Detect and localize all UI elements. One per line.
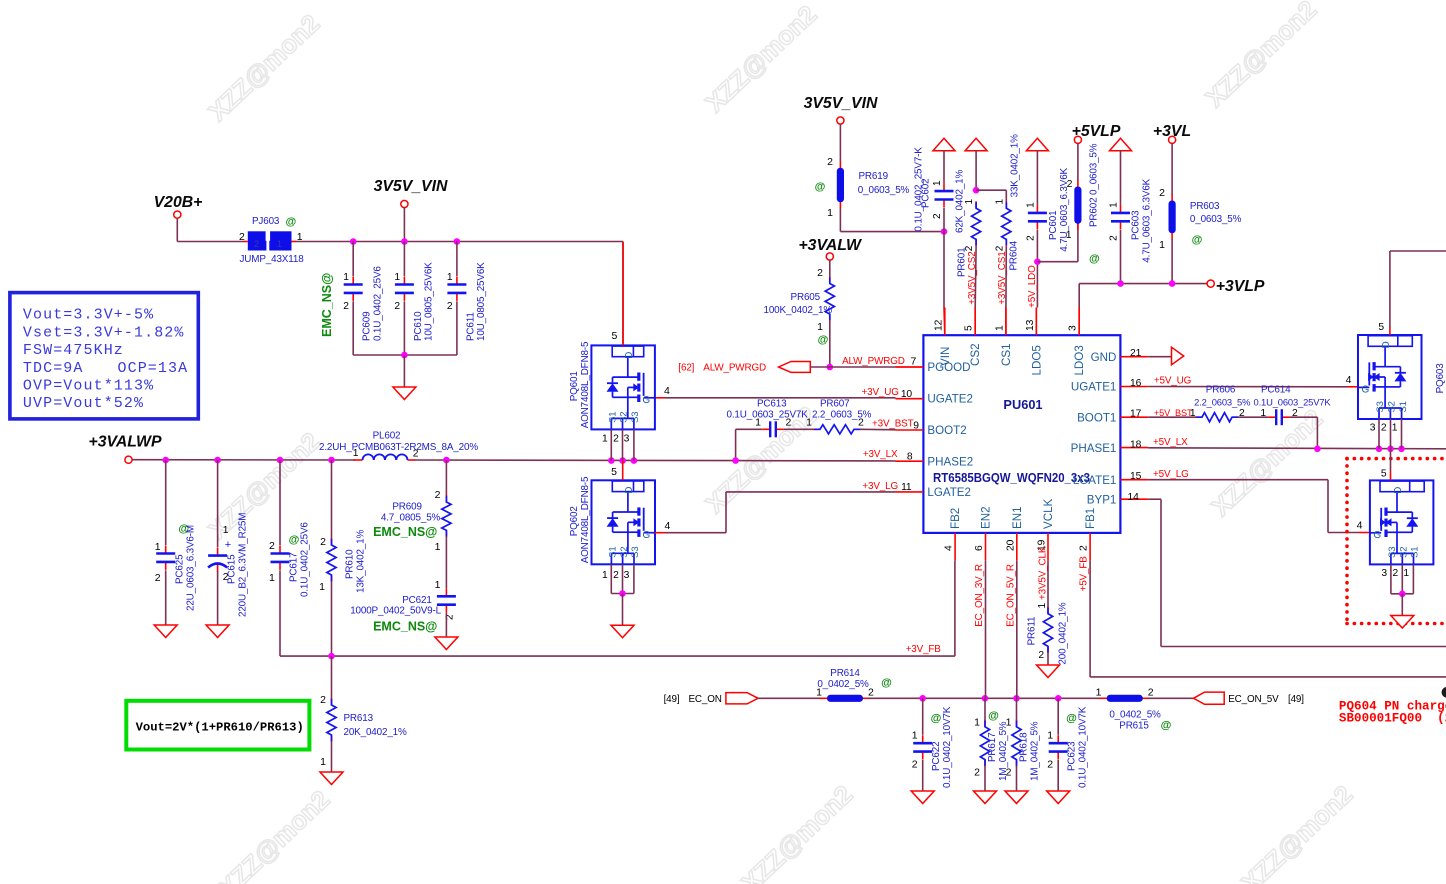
- svg-text:+5V_UG: +5V_UG: [1154, 376, 1191, 387]
- PQ602 pin4 label: [665, 520, 671, 532]
- svg-text:2: 2: [932, 213, 943, 219]
- wire PR619 to VIN: [840, 208, 947, 235]
- svg-text:PC621: PC621: [402, 595, 432, 606]
- svg-text:1: 1: [974, 717, 980, 729]
- net +5VLP terminal: [1072, 123, 1121, 143]
- svg-text:200_0402_1%: 200_0402_1%: [1058, 602, 1069, 664]
- wire +3VALWP rail: [132, 457, 895, 464]
- svg-text:EC_ON_5V_R: EC_ON_5V_R: [1006, 564, 1017, 627]
- wire PQ603 sources: [1370, 419, 1402, 449]
- svg-text:2: 2: [1381, 423, 1387, 434]
- svg-text:S2: S2: [619, 546, 630, 557]
- wire PQ601 pin5: [611, 242, 623, 346]
- svg-text:EMC_NS@: EMC_NS@: [373, 525, 437, 539]
- svg-text:PC610: PC610: [413, 311, 424, 341]
- svg-text:S1: S1: [608, 412, 619, 423]
- net label +3V_LG: [862, 481, 898, 492]
- ground PC621: [435, 637, 458, 650]
- svg-text:17: 17: [1130, 409, 1142, 420]
- PQ603 pin4 label: [1346, 374, 1352, 386]
- net +3V5V_CS1: [997, 251, 1008, 305]
- net +5V_LDO: [1027, 265, 1038, 308]
- svg-text:G: G: [642, 395, 650, 406]
- svg-text:PQ603: PQ603: [1435, 363, 1446, 394]
- ground PQ604: [1391, 616, 1414, 629]
- resistor PR610: [319, 460, 366, 656]
- svg-text:1: 1: [932, 180, 943, 186]
- svg-text:0.1U_0402_25V6: 0.1U_0402_25V6: [300, 522, 311, 597]
- net label +5V_BST: [1154, 408, 1193, 418]
- svg-text:FSW=475KHz: FSW=475KHz: [23, 342, 124, 359]
- svg-text:22U_0603_6.3V6-M: 22U_0603_6.3V6-M: [186, 525, 197, 611]
- svg-text:1: 1: [1066, 229, 1072, 241]
- watermark: [204, 0, 1359, 884]
- wire PR604 to CS1: [1005, 246, 1007, 335]
- ground PC622: [911, 791, 934, 804]
- ground cap bank: [393, 387, 416, 400]
- svg-text:1: 1: [320, 756, 326, 768]
- svg-text:PHASE1: PHASE1: [1071, 442, 1117, 455]
- svg-text:@: @: [1161, 720, 1172, 732]
- wire VIN pin stub: [943, 308, 946, 336]
- wire EC_ON to PR614: [758, 697, 822, 699]
- capacitor PC613: [727, 398, 809, 437]
- wire PQ604 pin5: [1381, 449, 1391, 481]
- net EC_ON_5V_R: [1006, 564, 1017, 627]
- svg-text:1: 1: [1047, 730, 1053, 742]
- svg-text:PC615: PC615: [227, 554, 238, 584]
- svg-text:5: 5: [964, 325, 975, 331]
- svg-text:EMC_NS@: EMC_NS@: [320, 273, 334, 337]
- svg-text:UVP=Vout*52%: UVP=Vout*52%: [23, 395, 144, 412]
- svg-text:PC609: PC609: [362, 311, 373, 341]
- svg-text:OCP=13A: OCP=13A: [118, 360, 189, 377]
- capacitor PC615: [208, 460, 248, 625]
- wire LDO5 to PR602: [1037, 208, 1078, 262]
- net label +3V_FB: [906, 644, 942, 655]
- svg-text:LGATE1: LGATE1: [1073, 474, 1117, 487]
- svg-text:0_0402_5%: 0_0402_5%: [1109, 710, 1161, 721]
- capacitor PC610: [394, 242, 434, 356]
- svg-text:4: 4: [665, 520, 671, 532]
- svg-text:+5V_LDO: +5V_LDO: [1027, 265, 1038, 308]
- svg-text:PC623: PC623: [1067, 741, 1078, 771]
- svg-text:2: 2: [394, 301, 400, 312]
- svg-text:+3VLP: +3VLP: [1216, 278, 1265, 295]
- svg-text:PU601: PU601: [1003, 397, 1042, 412]
- svg-text:4: 4: [1357, 520, 1363, 532]
- svg-text:2: 2: [868, 687, 874, 699]
- resistor PR607: [806, 398, 872, 434]
- wire EC_ON mid rail: [868, 695, 1101, 702]
- IC PU601 RT6585BGQW_WQFN20_3x3: [923, 335, 1120, 533]
- svg-text:G: G: [643, 530, 651, 541]
- svg-text:1: 1: [269, 572, 275, 584]
- svg-text:13K_0402_1%: 13K_0402_1%: [356, 529, 367, 593]
- net +3VALW terminal: [798, 237, 863, 260]
- svg-text:[49]: [49]: [1288, 694, 1304, 705]
- svg-text:PR613: PR613: [344, 713, 374, 724]
- svg-text:EN2: EN2: [980, 506, 993, 529]
- svg-text:1: 1: [1037, 603, 1048, 609]
- svg-text:S2: S2: [1399, 547, 1410, 558]
- svg-text:2: 2: [858, 417, 864, 429]
- inductor PL602: [319, 431, 478, 461]
- svg-text:1: 1: [1190, 408, 1196, 419]
- svg-text:Vout=2V*(1+PR610/PR613): Vout=2V*(1+PR610/PR613): [136, 721, 304, 735]
- svg-text:PR605: PR605: [791, 292, 821, 303]
- svg-text:2: 2: [974, 767, 980, 779]
- svg-text:1: 1: [1392, 423, 1398, 434]
- svg-text:+3VALWP: +3VALWP: [88, 434, 161, 451]
- svg-text:@: @: [1066, 713, 1077, 725]
- svg-text:PR602 0_0603_5%: PR602 0_0603_5%: [1088, 143, 1099, 227]
- svg-text:PC602: PC602: [921, 179, 932, 208]
- svg-text:2: 2: [1047, 759, 1053, 771]
- svg-text:(2: (2: [1437, 712, 1446, 726]
- svg-text:2: 2: [817, 267, 823, 279]
- ground PR618: [1005, 791, 1028, 804]
- svg-text:RT6585BGQW_WQFN20_3x3: RT6585BGQW_WQFN20_3x3: [933, 470, 1090, 485]
- svg-text:2: 2: [994, 245, 1005, 251]
- svg-text:S3: S3: [630, 412, 641, 423]
- svg-text:2: 2: [613, 570, 619, 581]
- svg-text:+5V_LX: +5V_LX: [1153, 437, 1188, 448]
- svg-text:@: @: [289, 534, 300, 546]
- edge dot: [1442, 687, 1446, 698]
- svg-text:3: 3: [624, 570, 630, 581]
- net V20B+ terminal: [154, 194, 203, 218]
- svg-text:+: +: [225, 539, 231, 551]
- svg-text:1: 1: [827, 207, 833, 219]
- wire PR615 to connector: [1148, 697, 1194, 699]
- svg-text:D: D: [624, 352, 635, 359]
- svg-text:11: 11: [901, 482, 912, 493]
- svg-text:CS1: CS1: [1000, 343, 1013, 366]
- wire PQ601 sources: [602, 429, 634, 460]
- svg-text:LDO5: LDO5: [1030, 345, 1043, 375]
- svg-text:1: 1: [1403, 568, 1409, 579]
- wire LGATE2: [655, 492, 896, 533]
- note box output spec: [10, 293, 198, 419]
- resistor PR602: [1066, 143, 1100, 265]
- wire UGATE2: [655, 397, 896, 399]
- svg-text:FB2: FB2: [949, 508, 962, 529]
- svg-text:@: @: [931, 713, 942, 725]
- svg-text:S1: S1: [1398, 401, 1409, 412]
- svg-text:AON7408L_DFN8-5: AON7408L_DFN8-5: [580, 341, 591, 428]
- svg-text:1: 1: [394, 272, 400, 283]
- svg-text:2: 2: [155, 572, 161, 584]
- net EC_ON_3V_R: [974, 564, 985, 627]
- svg-text:2: 2: [320, 536, 326, 548]
- svg-text:1: 1: [435, 579, 441, 591]
- svg-text:PR615: PR615: [1119, 721, 1149, 732]
- svg-text:S2: S2: [1387, 401, 1398, 412]
- svg-text:EC_ON_5V: EC_ON_5V: [1228, 694, 1279, 705]
- svg-text:2: 2: [1067, 178, 1073, 190]
- svg-text:1: 1: [319, 581, 325, 593]
- svg-text:[62]: [62]: [678, 363, 694, 374]
- svg-text:2: 2: [786, 417, 792, 429]
- svg-text:PR603: PR603: [1190, 201, 1220, 212]
- svg-text:PR617: PR617: [987, 733, 998, 762]
- svg-text:LGATE2: LGATE2: [927, 486, 971, 499]
- svg-text:1: 1: [817, 321, 823, 333]
- svg-text:10U_0805_25V6K: 10U_0805_25V6K: [476, 262, 487, 341]
- svg-text:3: 3: [1370, 423, 1376, 434]
- svg-text:2.2_0603_5%: 2.2_0603_5%: [1194, 397, 1250, 408]
- net 3V5V_VIN terminal: [374, 178, 448, 242]
- svg-text:0_0402_5%: 0_0402_5%: [817, 679, 869, 690]
- wire LDO5 pin stub: [1034, 258, 1041, 335]
- svg-text:FB1: FB1: [1084, 508, 1097, 529]
- svg-text:PR611: PR611: [1027, 616, 1038, 645]
- svg-text:EC_ON: EC_ON: [689, 694, 722, 705]
- resistor PR609: [373, 460, 451, 553]
- svg-text:JUMP_43X118: JUMP_43X118: [240, 254, 305, 265]
- svg-text:0.1U_0402_10V7K: 0.1U_0402_10V7K: [1078, 706, 1089, 788]
- note PQ604 PN charger: [1339, 700, 1446, 726]
- svg-text:1: 1: [994, 199, 1005, 205]
- svg-text:1: 1: [1260, 408, 1266, 419]
- capacitor PC622: [912, 698, 953, 791]
- svg-text:1: 1: [602, 570, 608, 581]
- resistor PR605: [764, 260, 835, 346]
- net label +5V_LX: [1153, 437, 1188, 448]
- svg-text:PC617: PC617: [289, 553, 300, 582]
- transistor PQ601: [569, 341, 655, 429]
- wire PC613 to PR607: [784, 428, 814, 430]
- svg-text:21: 21: [1130, 348, 1142, 359]
- off-page connector EC_ON: [664, 693, 759, 705]
- svg-text:@: @: [881, 677, 892, 689]
- svg-text:PR618: PR618: [1018, 732, 1029, 762]
- svg-text:1: 1: [343, 272, 349, 283]
- capacitor PC611: [447, 242, 487, 356]
- svg-text:@: @: [1192, 234, 1203, 246]
- svg-text:CS2: CS2: [969, 343, 982, 366]
- svg-text:PR604: PR604: [1008, 240, 1019, 270]
- svg-text:S1: S1: [1410, 547, 1421, 558]
- svg-text:6: 6: [974, 545, 985, 551]
- svg-text:G: G: [1373, 530, 1381, 541]
- ground PR613: [320, 772, 343, 785]
- wire +3VLP rail: [1079, 280, 1207, 335]
- svg-text:G: G: [1362, 385, 1370, 396]
- dotted box PQ604: [1347, 459, 1446, 624]
- svg-text:12: 12: [933, 319, 944, 331]
- ground PC615: [206, 625, 229, 638]
- wire PQ603 drain: [1378, 251, 1446, 335]
- svg-text:PR609: PR609: [392, 501, 422, 512]
- svg-text:0.1U_0603_25V7K: 0.1U_0603_25V7K: [1254, 397, 1332, 408]
- svg-text:+5V_LG: +5V_LG: [1153, 469, 1189, 480]
- capacitor PC601: [1025, 151, 1070, 308]
- svg-text:2: 2: [912, 759, 918, 771]
- resistor PR618: [1006, 698, 1041, 791]
- capacitor PC603: [1109, 151, 1153, 284]
- svg-text:3V5V_VIN: 3V5V_VIN: [804, 95, 878, 112]
- svg-text:1: 1: [155, 541, 161, 553]
- svg-text:2: 2: [1109, 235, 1120, 241]
- wire UGATE1: [1148, 386, 1358, 388]
- svg-text:+3V_UG: +3V_UG: [862, 387, 899, 398]
- svg-text:ALW_PWRGD: ALW_PWRGD: [703, 363, 766, 374]
- resistor PR606: [1148, 385, 1250, 422]
- note box Vout formula: [126, 701, 309, 750]
- svg-text:0.1U_0402_10V7K: 0.1U_0402_10V7K: [942, 706, 953, 788]
- net 3V5V_VIN terminal 2: [804, 95, 878, 124]
- svg-text:7: 7: [911, 356, 917, 368]
- svg-text:EN1: EN1: [1011, 506, 1024, 529]
- net label +3V_LX: [863, 449, 898, 460]
- svg-text:1: 1: [435, 541, 441, 553]
- svg-text:PQ602: PQ602: [569, 506, 580, 536]
- svg-text:2: 2: [827, 156, 833, 168]
- net +3V5V_CLK: [1037, 546, 1048, 608]
- capacitor PC602: [913, 147, 953, 308]
- svg-text:4.7U_0603_6.3V6K: 4.7U_0603_6.3V6K: [1141, 178, 1152, 262]
- svg-text:1: 1: [223, 525, 229, 536]
- svg-text:PR614: PR614: [830, 668, 860, 679]
- svg-text:GND: GND: [1091, 351, 1117, 364]
- wire PR601 to CS2: [974, 246, 977, 335]
- svg-text:100K_0402_1%: 100K_0402_1%: [764, 305, 833, 316]
- power symbol LDO5: [1026, 138, 1048, 150]
- label EMC_NS@ cap bank: [320, 273, 334, 337]
- svg-text:3: 3: [1068, 325, 1079, 331]
- svg-text:1: 1: [964, 199, 975, 205]
- wire jumper to PQ601 drain: [292, 242, 624, 346]
- svg-text:PR607: PR607: [820, 398, 849, 409]
- jumper PJ603: [239, 216, 304, 265]
- svg-text:PC603: PC603: [1130, 210, 1141, 240]
- net label +5V_UG: [1154, 376, 1191, 387]
- svg-text:5: 5: [1378, 322, 1384, 333]
- svg-text:2: 2: [435, 489, 441, 501]
- svg-text:10U_0805_25V6K: 10U_0805_25V6K: [424, 262, 435, 341]
- junction dots top rail: [350, 238, 460, 245]
- net +3V5V_CS2: [967, 251, 978, 304]
- svg-text:PC613: PC613: [757, 398, 787, 409]
- svg-text:8: 8: [907, 452, 913, 463]
- svg-text:UGATE1: UGATE1: [1071, 381, 1117, 394]
- resistor PR614: [816, 668, 892, 702]
- net label +5V_LG: [1153, 469, 1189, 480]
- off-page connector GND: [1148, 347, 1184, 365]
- resistor PR603: [1159, 143, 1241, 283]
- svg-text:1M_0402_5%: 1M_0402_5%: [1029, 721, 1040, 781]
- svg-text:@: @: [286, 216, 297, 228]
- wire PR609 to PC621: [445, 536, 447, 588]
- wire PQ604 sources: [1381, 564, 1413, 615]
- wire LGATE1: [1148, 480, 1370, 533]
- wire PR607 to BOOT2: [860, 428, 896, 431]
- svg-text:+3V_LX: +3V_LX: [863, 449, 898, 460]
- wire VCLK drop: [1047, 561, 1049, 608]
- svg-text:4: 4: [944, 545, 955, 551]
- svg-text:PQ601: PQ601: [569, 371, 580, 402]
- svg-text:1: 1: [447, 272, 453, 283]
- ground PC623: [1047, 791, 1070, 804]
- svg-text:1: 1: [994, 325, 1005, 331]
- svg-text:PC625: PC625: [175, 554, 186, 584]
- svg-text:PR606: PR606: [1206, 385, 1236, 396]
- svg-text:2: 2: [413, 449, 419, 460]
- svg-text:LDO3: LDO3: [1073, 345, 1086, 375]
- svg-text:3V5V_VIN: 3V5V_VIN: [374, 178, 448, 195]
- power symbol PC603: [1110, 138, 1132, 150]
- svg-text:PC622: PC622: [931, 742, 942, 771]
- svg-text:220U_B2_6.3VM_R25M: 220U_B2_6.3VM_R25M: [238, 513, 249, 617]
- svg-text:2: 2: [343, 301, 349, 312]
- svg-text:2: 2: [254, 239, 259, 249]
- svg-text:5: 5: [1381, 469, 1387, 480]
- svg-text:4: 4: [1346, 374, 1352, 386]
- svg-text:2: 2: [613, 434, 619, 445]
- PQ604 pin4 label: [1357, 520, 1363, 532]
- svg-text:9: 9: [913, 421, 919, 432]
- svg-text:2: 2: [239, 231, 245, 243]
- svg-text:TDC=9A: TDC=9A: [23, 360, 84, 377]
- svg-text:1: 1: [1096, 687, 1102, 699]
- svg-text:5: 5: [611, 466, 617, 478]
- svg-text:13: 13: [1025, 319, 1036, 331]
- svg-text:S3: S3: [1375, 401, 1386, 412]
- svg-text:D: D: [1393, 487, 1404, 494]
- svg-text:2: 2: [1038, 650, 1044, 661]
- ground PC625: [154, 625, 177, 638]
- svg-text:S1: S1: [608, 546, 619, 557]
- svg-text:3: 3: [1381, 568, 1387, 579]
- resistor PR617: [974, 698, 1009, 791]
- svg-text:BYP1: BYP1: [1087, 493, 1117, 506]
- PQ601 pin4 label: [664, 385, 670, 397]
- svg-text:@: @: [818, 334, 829, 346]
- svg-text:1: 1: [1159, 239, 1165, 251]
- wire +5V_LX rail: [1148, 446, 1446, 453]
- svg-text:2.2UH_PCMB063T-2R2MS_8A_20%: 2.2UH_PCMB063T-2R2MS_8A_20%: [319, 442, 478, 453]
- resistor PR611: [1027, 602, 1069, 664]
- svg-text:PR610: PR610: [345, 549, 356, 579]
- wire PQ602 sources: [602, 564, 634, 625]
- power symbol VIN: [933, 138, 955, 150]
- svg-text:+3V_FB: +3V_FB: [906, 644, 942, 655]
- wire PC621 to gnd: [445, 613, 447, 637]
- svg-text:1: 1: [353, 448, 359, 459]
- net +3VALWP terminal: [88, 434, 161, 464]
- svg-text:PC601: PC601: [1048, 210, 1059, 240]
- svg-text:BOOT1: BOOT1: [1077, 411, 1116, 424]
- svg-text:3: 3: [624, 434, 630, 445]
- svg-text:EC_ON_3V_R: EC_ON_3V_R: [974, 564, 985, 627]
- svg-text:1: 1: [277, 239, 282, 249]
- net label +3V_UG: [862, 387, 899, 398]
- resistor PR613: [320, 656, 407, 771]
- svg-text:Vset=3.3V+-1.82%: Vset=3.3V+-1.82%: [23, 324, 185, 341]
- svg-text:PL602: PL602: [373, 431, 401, 442]
- svg-text:UGATE2: UGATE2: [927, 393, 973, 406]
- net label ALW_PWRGD pin7: [842, 356, 916, 368]
- svg-text:PC611: PC611: [465, 312, 476, 341]
- svg-text:[49]: [49]: [664, 694, 680, 705]
- capacitor PC617: [269, 460, 310, 656]
- svg-text:1: 1: [755, 417, 761, 429]
- svg-text:EMC_NS@: EMC_NS@: [373, 620, 437, 634]
- IC PU601 pin stubs: [896, 308, 1149, 561]
- wire PQ602 pin5: [611, 461, 623, 481]
